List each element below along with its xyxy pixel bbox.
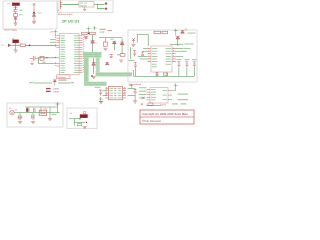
- svg-text:TITLE: framework: TITLE: framework: [142, 120, 162, 123]
- resistor R3: [90, 32, 96, 34]
- IC U1 left pin numbers: [55, 35, 56, 66]
- solder jumper SJ1: [39, 110, 46, 115]
- wire bus horizontal lower: [96, 72, 132, 76]
- IC U4 body: [151, 46, 172, 72]
- IC U6 right pin names: [163, 90, 168, 100]
- label net SDA: [178, 99, 189, 100]
- wire: [33, 17, 35, 21]
- capacitor C1: [30, 56, 38, 61]
- supply symbol VCC second: [93, 26, 97, 30]
- supply symbol VCC right of U6: [172, 83, 178, 90]
- IC U4 right pin stubs: [172, 49, 176, 62]
- IC U5 right pin stubs: [123, 88, 127, 98]
- resistor R2: [82, 32, 88, 34]
- svg-text:GND EN: GND EN: [80, 5, 87, 7]
- IC U6 left pin names: [151, 89, 156, 100]
- ground below LED1: [103, 48, 107, 50]
- wire: [69, 119, 85, 126]
- capacitor C8: [185, 59, 190, 67]
- capacitor C7: [177, 59, 182, 67]
- label net SCL: [178, 94, 189, 95]
- label cluster top right of U1: [100, 29, 113, 33]
- wire bus vertical second: [96, 58, 100, 73]
- box: power supply section frame: [3, 1, 57, 29]
- node AREF labels: [50, 39, 56, 43]
- IC U5 body: [109, 86, 123, 100]
- junction: [46, 57, 47, 58]
- buzzer BZ1 ring: [83, 111, 86, 114]
- wire: [94, 3, 105, 5]
- resistor R4: [120, 38, 124, 54]
- jumper JP2: [46, 91, 59, 93]
- wire: [140, 58, 148, 60]
- capacitor C5: [141, 52, 144, 56]
- capacitor C11: [99, 90, 102, 95]
- resistor R9 top right small: [99, 97, 103, 102]
- capacitor C13 polarized: [27, 108, 29, 112]
- ground: [99, 101, 103, 103]
- ground: [131, 44, 135, 46]
- capacitor C2: [84, 36, 88, 39]
- resistor R5: [117, 54, 125, 57]
- ground: [30, 61, 34, 65]
- IC U1 right pin numbers: [83, 35, 84, 72]
- wire: [92, 35, 94, 41]
- label component values audio: [15, 109, 57, 115]
- IC U4 pin numbers: [148, 48, 174, 62]
- wire net TX: [34, 82, 52, 84]
- label nets between U5 and U6: [139, 87, 147, 98]
- capacitor C9: [192, 59, 197, 67]
- wire: [92, 43, 94, 52]
- resistor R7: [162, 31, 168, 34]
- capacitor C15: [18, 115, 23, 119]
- supply symbol VCC above U1: [54, 30, 58, 36]
- box: programming header frame: [67, 108, 97, 129]
- diode D5: [176, 36, 180, 46]
- ground: [92, 77, 96, 79]
- wire top rail of LED chains: [99, 37, 122, 39]
- capacitor C16: [32, 115, 34, 119]
- wire bus lower texture: [96, 73, 132, 75]
- label U1 bottom net names: [59, 79, 67, 82]
- label above C11: [95, 86, 101, 89]
- wire: [15, 6, 17, 10]
- IC U5 inner pin marks: [114, 88, 116, 98]
- IC U4 left pin names: [152, 48, 158, 67]
- wire right pins U4: [176, 49, 187, 57]
- ground: [83, 7, 86, 10]
- svg-text:J2: J2: [58, 10, 60, 12]
- wire: [33, 8, 35, 13]
- wire: [13, 43, 20, 46]
- connector J2: [58, 1, 63, 12]
- ground: [14, 45, 18, 52]
- LED LED2: [110, 39, 116, 50]
- IC U1 left pin names: [61, 35, 66, 73]
- resistor R1: [20, 44, 25, 47]
- box: audio section frame: [7, 103, 63, 127]
- varistor RV1: [14, 14, 23, 17]
- svg-text:JUMP1: JUMP1: [53, 89, 59, 91]
- svg-text:RV1: RV1: [19, 15, 23, 17]
- IC U1 left pin stubs: [57, 36, 60, 66]
- wire: [134, 95, 136, 101]
- label net VBUS: [188, 32, 196, 35]
- svg-text:C7: C7: [15, 109, 17, 111]
- IC U6 right pin stubs: [168, 91, 172, 100]
- ground: [48, 118, 52, 120]
- supply symbol +5V: [14, 5, 18, 9]
- wire bus vertical: [84, 58, 89, 82]
- ground: [83, 126, 87, 128]
- diode pair D6: [53, 80, 56, 86]
- wire bus elbow to I2C IC: [84, 82, 107, 86]
- ground: [18, 121, 22, 123]
- label net RX: [71, 82, 75, 83]
- svg-text:Q1: Q1: [70, 113, 73, 115]
- wire: [98, 4, 105, 8]
- wire net RX: [58, 82, 70, 84]
- title block frame: [140, 110, 194, 124]
- svg-text:LED: LED: [110, 39, 114, 41]
- regulator U2: [79, 2, 94, 8]
- supply symbol VCC sensor: [174, 29, 178, 36]
- IC U4 right pin names: [166, 48, 172, 64]
- transistor Q2: [91, 40, 98, 44]
- svg-text:RX/TX: RX/TX: [161, 104, 167, 106]
- IC U1 right pin names: [74, 35, 79, 73]
- ground below R5: [119, 60, 123, 62]
- switch S1: [13, 9, 23, 12]
- wire: [103, 91, 107, 96]
- svg-text:+5V: +5V: [50, 31, 54, 33]
- wire: [143, 48, 148, 50]
- diode D3: [12, 38, 19, 42]
- diode D7 on lower bus: [105, 62, 109, 64]
- svg-text:Copyright (C) 2009-2016 Scott: Copyright (C) 2009-2016 Scott Miler: [142, 113, 188, 116]
- IC U5 left pin stubs: [105, 88, 109, 98]
- label net INT: [185, 43, 194, 46]
- LED D4: [181, 28, 188, 33]
- svg-text:F1: F1: [8, 4, 10, 6]
- resistor R6: [154, 31, 161, 34]
- resistor R8 below U4: [163, 73, 167, 75]
- IC U1 right pin stubs: [79, 36, 83, 73]
- crystal Q1: [40, 56, 44, 60]
- speaker LS1: [9, 108, 14, 115]
- svg-text:My Power Switch: My Power Switch: [58, 13, 73, 16]
- supply symbol VCC right of U5: [129, 84, 133, 89]
- capacitor C6: [134, 63, 137, 69]
- supply arrow +VIN: [33, 3, 36, 8]
- component block dark: [80, 115, 88, 118]
- LED LED1: [103, 38, 107, 46]
- capacitor C14: [34, 108, 35, 112]
- label pins right U4: [184, 47, 191, 50]
- ground: [133, 101, 137, 103]
- wire: [138, 55, 148, 57]
- svg-text:2P UU U2: 2P UU U2: [62, 19, 80, 24]
- capacitor C3: [109, 55, 113, 58]
- ground: [31, 121, 35, 123]
- junction: [91, 75, 93, 77]
- IC U5 right pin names: [118, 88, 122, 98]
- capacitor C12: [134, 89, 137, 95]
- connector J1: [2, 44, 14, 47]
- supply symbol VCC audio: [56, 102, 60, 106]
- wire net XTAL2: [38, 58, 56, 64]
- wire ground bus sensor: [134, 67, 195, 76]
- IC U1 ATmega body: [60, 34, 80, 75]
- wire net INT: [170, 43, 183, 45]
- wire: [15, 12, 17, 14]
- capacitor C10 below U4: [155, 73, 158, 76]
- supply arrow near U6: [142, 97, 145, 99]
- wire battery net: [130, 47, 132, 59]
- wire net to U1: [25, 44, 56, 46]
- IC U6 body: [150, 88, 168, 104]
- junction: [33, 12, 35, 14]
- junction: [29, 45, 31, 47]
- box: power switch section frame: [58, 0, 113, 13]
- fuse F1: [8, 3, 20, 6]
- wire bus elbow texture: [84, 83, 107, 85]
- resistor R10: [78, 124, 82, 126]
- label net TX: [29, 82, 34, 83]
- capacitor C4: [133, 51, 136, 57]
- diode D1: [14, 17, 17, 19]
- transistor Q3: [92, 58, 96, 74]
- svg-text:16M: 16M: [42, 62, 46, 64]
- wire: [128, 88, 136, 95]
- svg-text:JUMP2: JUMP2: [53, 92, 59, 94]
- IC U5 pin numbers: [106, 87, 126, 95]
- wire audio bus: [14, 104, 60, 121]
- component small UART header: [141, 103, 187, 106]
- wire: [143, 50, 148, 52]
- pin P2: [105, 8, 107, 10]
- jumper JP1: [46, 89, 59, 91]
- IC U5 left pin names: [110, 88, 114, 98]
- label net BATT: [129, 59, 135, 62]
- IC U4 left pin stubs: [148, 49, 152, 62]
- ground: [13, 23, 17, 25]
- svg-text:VCC: VCC: [38, 13, 43, 15]
- wire bus from U1 right pins: [83, 52, 102, 58]
- ground: [32, 21, 36, 23]
- wire bus vertical lines texture: [85, 58, 88, 82]
- svg-text:SJ1: SJ1: [44, 109, 47, 111]
- junction: [86, 122, 87, 123]
- junction: [88, 33, 90, 35]
- wire net to U4: [137, 35, 148, 47]
- svg-text:Reserved: Reserved: [58, 76, 66, 79]
- svg-text:T1: T1: [95, 42, 97, 44]
- pin P1: [105, 2, 107, 4]
- wire bus lines texture: [83, 53, 101, 56]
- label: reserved note: [57, 75, 71, 79]
- box: sensor section frame: [128, 30, 197, 82]
- supply symbol VCC right of U1: [87, 27, 91, 34]
- IC U6 left pin stubs: [147, 90, 151, 100]
- junction: [79, 118, 80, 119]
- supply arrow VIN2: [132, 38, 135, 43]
- svg-text:SW1: SW1: [19, 10, 23, 12]
- wire: [15, 20, 17, 24]
- diode D2: [32, 14, 35, 16]
- wire net XTAL1: [38, 57, 57, 59]
- wire: [62, 3, 79, 5]
- svg-text:Power Supply: Power Supply: [4, 29, 18, 32]
